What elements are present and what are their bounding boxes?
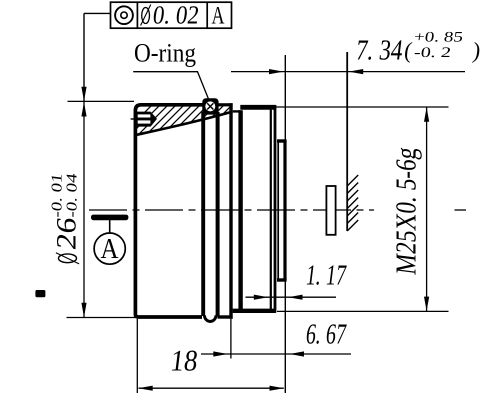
svg-text:18: 18: [169, 344, 200, 378]
dim 18 dimension line: [139, 387, 284, 389]
O-ring cross-section circle: [205, 101, 215, 111]
dim 7.34 arrow right-pointing: [269, 69, 284, 74]
dia26 arrow up: [81, 102, 86, 117]
svg-text:+0. 85: +0. 85: [413, 30, 464, 46]
barrel bottom edge right segment: [218, 315, 233, 318]
O-ring cross marks: [207, 103, 213, 109]
svg-text:7. 34: 7. 34: [354, 35, 405, 67]
screw slot feature: [136, 112, 158, 127]
dim 1.17 arrow left-pointing: [288, 295, 303, 300]
groove bottom U notch: [204, 315, 216, 321]
pilot ring outline: [277, 141, 287, 280]
dim 7.34 text: [354, 30, 482, 67]
thread relief top line: [233, 110, 241, 112]
datum stem: [109, 220, 111, 233]
barrel top edge right segment: [219, 103, 233, 106]
dim 1.17 arrow right-pointing: [254, 295, 268, 300]
M25 arrow up: [424, 107, 429, 122]
concentricity symbol: [115, 6, 133, 24]
thread end face: [274, 105, 277, 313]
svg-text:6. 67: 6. 67: [304, 319, 348, 351]
thread crest top edge: [240, 105, 276, 110]
datum bar: [91, 215, 128, 221]
dim 7.34 dimension line: [231, 71, 465, 73]
FCF leader arrow (down): [81, 87, 86, 102]
dim 6.67 arrow left-pointing: [290, 351, 305, 356]
stray mark: [35, 290, 45, 297]
FCF leader horizontal: [84, 12, 111, 14]
M25 extension line top: [275, 106, 449, 108]
thread shoulder line: [238, 110, 242, 310]
section boundary diagonal: [137, 112, 233, 135]
groove wall right: [216, 112, 220, 316]
FCF tolerance text 0.02 with phi: [141, 0, 201, 29]
mount wall line: [346, 52, 348, 231]
datum circle: [94, 233, 125, 264]
centerline right dash: [455, 209, 467, 211]
dim 6.67 dimension line: [201, 353, 351, 355]
dia26 dimension line: [83, 101, 85, 317]
dim 7.34 extension line left: [284, 55, 286, 140]
dim 18 arrow left-pointing at left end: [138, 386, 153, 391]
svg-text:-0. 01: -0. 01: [49, 173, 65, 219]
screw slot tick: [131, 118, 136, 120]
svg-text:A: A: [212, 2, 225, 29]
svg-text:0. 02: 0. 02: [151, 0, 201, 29]
svg-text:M25X0. 5-6g: M25X0. 5-6g: [391, 145, 423, 276]
svg-text:A: A: [101, 233, 119, 265]
feature control frame box: [111, 2, 232, 28]
svg-text:1. 17: 1. 17: [304, 260, 348, 292]
extension line pilot ring face: [284, 281, 286, 394]
svg-text:26: 26: [52, 216, 83, 252]
dim 1.17 dimension line: [246, 296, 337, 298]
extension line below cap edge: [230, 319, 232, 359]
dim 7.34 arrow left-pointing: [349, 69, 364, 74]
FCF leader vertical wire: [83, 13, 85, 101]
mount gauge rectangle: [326, 186, 335, 235]
thread end chamfer line: [270, 107, 272, 311]
dim 6.67 arrow right-pointing: [213, 351, 228, 356]
O-ring groove block: [202, 98, 218, 114]
M25 thread text rotated: [391, 145, 423, 276]
mount wall hatch: [347, 175, 358, 231]
dim 18 text: [169, 344, 200, 378]
extension line barrel left face: [136, 319, 138, 393]
O-ring leader: [133, 72, 208, 99]
dia26 extension line bottom: [67, 317, 136, 319]
dim 6.67 text: [304, 319, 348, 351]
dim 18 arrow right-pointing at right end: [270, 386, 285, 391]
M25 dimension line: [426, 107, 428, 311]
cap right edge: [229, 103, 232, 319]
dim 1.17 text: [304, 260, 348, 292]
M25 extension line bottom: [277, 310, 449, 312]
svg-text:-0. 04: -0. 04: [64, 172, 80, 219]
svg-text:O-ring: O-ring: [134, 39, 196, 68]
thread crest bottom edge: [233, 309, 276, 313]
groove wall left: [201, 112, 205, 316]
dia26 text rotated: [49, 172, 82, 264]
svg-text:-0. 2: -0. 2: [413, 45, 452, 61]
centerline: [89, 209, 374, 211]
section hatch wedge: [112, 95, 274, 145]
dia26 extension line top: [68, 100, 135, 102]
barrel outline left face and top/bottom edges: [135, 105, 202, 317]
M25 arrow down: [424, 297, 429, 312]
dia26 arrow down: [81, 303, 86, 318]
